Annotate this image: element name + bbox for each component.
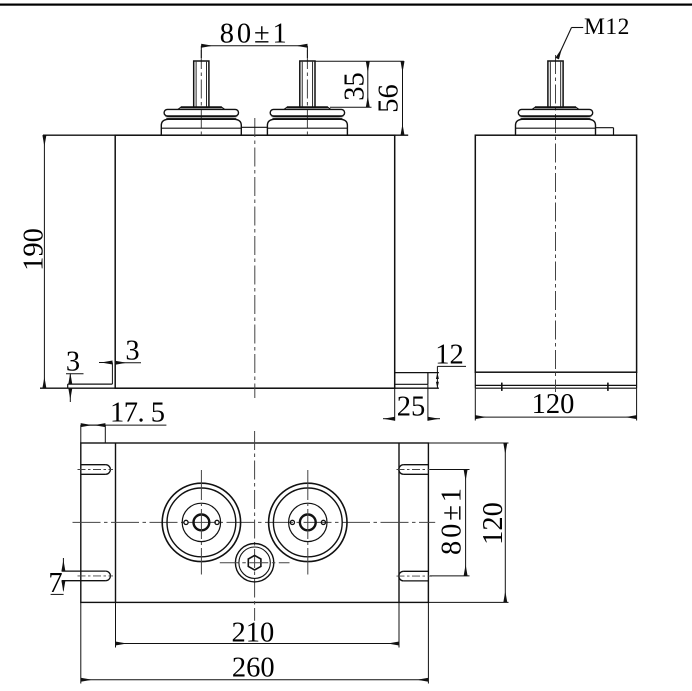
slot bottom-left <box>62 571 113 581</box>
top edge extension to right <box>428 442 508 444</box>
svg-text:M12: M12 <box>584 14 630 40</box>
front view case body <box>40 135 439 388</box>
dim 120 (side view) <box>475 388 636 420</box>
svg-text:80±1: 80±1 <box>437 488 468 555</box>
main vertical centerline <box>254 431 256 621</box>
center boss between insulators <box>241 126 267 128</box>
svg-text:190: 190 <box>19 228 50 271</box>
dim 56 <box>374 61 405 135</box>
case outline in bottom view <box>116 443 400 602</box>
main horizontal centerline <box>73 521 436 523</box>
side view case body <box>475 135 636 388</box>
dim 120 (bottom view, vertical) <box>478 443 509 602</box>
svg-text:12: 12 <box>435 340 464 371</box>
dim 210 <box>116 602 400 648</box>
svg-text:25: 25 <box>397 392 426 423</box>
dim 190 <box>19 135 50 388</box>
svg-text:56: 56 <box>374 84 405 113</box>
dim 3 vertical (flange thickness) <box>66 347 84 403</box>
dim 25 <box>383 384 440 422</box>
small drain terminal circle <box>220 544 290 582</box>
dim 35 <box>315 61 404 107</box>
svg-text:3: 3 <box>125 336 139 367</box>
mounting plate outline <box>81 443 429 602</box>
dim 7 (slot width) <box>48 558 63 599</box>
terminal T3 (side bolt + insulator) <box>516 61 596 135</box>
dim 17.5 <box>81 398 167 444</box>
dim 3 horizontal (step) <box>99 336 141 385</box>
front center line <box>254 118 256 398</box>
dim 12 <box>435 340 466 389</box>
bottom edge extension to right <box>428 601 508 603</box>
terminal T1 (left bolt + insulator) <box>161 61 241 135</box>
bottom-right mounting tab <box>395 373 439 385</box>
terminal T1 centerline <box>200 50 202 136</box>
slot top-right <box>397 465 433 475</box>
svg-text:35: 35 <box>340 72 371 101</box>
bottom-left mounting flange <box>68 384 113 388</box>
terminal circle left <box>162 470 240 575</box>
svg-text:3: 3 <box>66 347 80 378</box>
svg-text:120: 120 <box>478 502 509 545</box>
side boss notch <box>596 128 614 136</box>
dim 260 <box>81 581 429 684</box>
terminal circle right <box>269 470 347 575</box>
terminal T2 centerline <box>306 50 308 136</box>
dim 80±1 top <box>201 19 307 58</box>
svg-text:80±1: 80±1 <box>220 19 287 50</box>
page top border <box>0 4 692 6</box>
dim 80±1 (bottom view, vertical) <box>430 470 470 576</box>
M12 label + leader <box>557 14 630 59</box>
svg-text:17. 5: 17. 5 <box>110 398 165 429</box>
svg-text:260: 260 <box>232 652 275 683</box>
slot bottom-right <box>397 571 433 581</box>
slot top-left <box>78 465 114 475</box>
terminal T2 (right bolt + insulator) <box>267 61 347 135</box>
svg-text:210: 210 <box>232 618 275 649</box>
side center line <box>555 55 557 392</box>
svg-text:120: 120 <box>532 389 575 420</box>
slot position ticks <box>501 383 503 391</box>
